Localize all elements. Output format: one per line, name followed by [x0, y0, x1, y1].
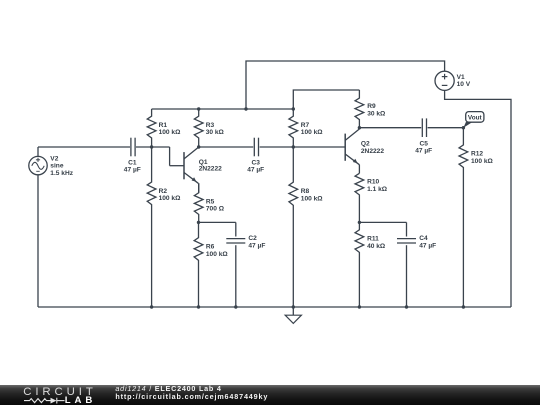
wire Q2 collector to C5: [359, 127, 421, 129]
svg-text:100 kΩ: 100 kΩ: [301, 129, 324, 136]
node R2/rail: [150, 305, 153, 308]
LAB logo text: [65, 395, 96, 405]
svg-text:100 kΩ: 100 kΩ: [471, 158, 494, 165]
svg-text:R3: R3: [206, 122, 215, 129]
node R10/R11/C4 junction: [358, 221, 361, 224]
wire C4 bottom lead: [406, 245, 408, 307]
resistor R3: [194, 109, 203, 147]
wire V1 negative return: [445, 91, 511, 307]
node Vout junction: [462, 126, 465, 129]
svg-text:R2: R2: [159, 188, 168, 195]
svg-text:100 kΩ: 100 kΩ: [206, 251, 229, 258]
node R3 top rail junction: [197, 107, 200, 110]
svg-text:R10: R10: [367, 179, 379, 186]
svg-text:R11: R11: [367, 236, 379, 243]
wire R5/R6 node to C2: [199, 221, 236, 223]
svg-text:30 kΩ: 30 kΩ: [367, 110, 386, 117]
svg-text:R12: R12: [471, 151, 483, 158]
node R7/R8/Q2-base junction: [292, 145, 295, 148]
wire ground rail: [38, 306, 511, 308]
node C1/R1/R2/base junction: [150, 145, 153, 148]
node C2/rail: [234, 305, 237, 308]
svg-text:V1: V1: [457, 74, 465, 81]
node stage2 rail junction: [292, 107, 295, 110]
voltage source V1: [435, 71, 454, 90]
wire C2 top lead: [235, 222, 237, 236]
svg-text:C5: C5: [419, 140, 428, 147]
capacitor C1: [130, 138, 132, 157]
wire to Q1 base: [170, 165, 184, 167]
svg-text:100 kΩ: 100 kΩ: [159, 129, 182, 136]
wire R10/R11 node to C4: [359, 221, 406, 223]
node Q1 collector junction: [197, 145, 200, 148]
wire stage2 rail: [293, 90, 359, 109]
wire C4 top lead: [406, 222, 408, 236]
logo wire-resistor-diode glyph: [0, 395, 70, 405]
svg-text:Vout: Vout: [468, 114, 483, 121]
svg-text:R9: R9: [367, 103, 376, 110]
svg-text:Q2: Q2: [361, 141, 370, 148]
node R12/rail: [462, 305, 465, 308]
svg-text:R5: R5: [206, 198, 215, 205]
resistor R8: [289, 147, 298, 307]
svg-text:47 µF: 47 µF: [419, 242, 436, 249]
transistor Q1: [183, 152, 185, 179]
svg-text:C2: C2: [248, 235, 257, 242]
wire V1 positive feed: [246, 61, 445, 109]
capacitor C3: [253, 138, 255, 157]
wire Q1 emitter lead: [198, 183, 200, 193]
svg-text:2N2222: 2N2222: [361, 148, 384, 155]
resistor R12: [459, 128, 468, 307]
svg-text:R8: R8: [301, 188, 310, 195]
resistor R1: [147, 109, 156, 147]
attribution line: [115, 384, 221, 393]
node gnd/rail: [292, 305, 295, 308]
svg-text:R6: R6: [206, 244, 215, 251]
transistor Q2: [344, 134, 346, 161]
svg-text:C3: C3: [251, 159, 260, 166]
resistor R9: [355, 90, 364, 128]
capacitor C4: [397, 238, 416, 240]
node C4/rail: [405, 305, 408, 308]
capacitor C5: [421, 118, 423, 137]
svg-text:R7: R7: [301, 122, 310, 129]
svg-text:sine: sine: [50, 163, 64, 170]
node R11/rail: [358, 305, 361, 308]
resistor R6: [194, 222, 203, 307]
svg-text:1.1 kΩ: 1.1 kΩ: [367, 186, 388, 193]
node Q2 collector junction: [358, 126, 361, 129]
wire Q1 collector to C3: [199, 146, 254, 148]
voltage source V2: [29, 156, 47, 174]
CircuitLab logo text: [23, 386, 97, 398]
wire V2 bottom lead: [37, 175, 39, 307]
node V1 feed junction: [244, 107, 247, 110]
svg-text:2N2222: 2N2222: [199, 166, 222, 173]
svg-text:47 µF: 47 µF: [247, 166, 264, 173]
url line: [115, 392, 268, 401]
svg-text:47 µF: 47 µF: [124, 166, 141, 173]
svg-text:V2: V2: [50, 156, 58, 163]
svg-text:C4: C4: [419, 235, 428, 242]
footer watermark bar: [0, 385, 540, 405]
wire V2 top lead: [37, 147, 39, 156]
svg-text:10 V: 10 V: [457, 81, 471, 88]
wire C2 bottom lead: [235, 245, 237, 307]
wire top rail stage1: [152, 108, 294, 110]
svg-text:47 µF: 47 µF: [415, 148, 432, 155]
Vout flag: [463, 122, 472, 128]
svg-text:C1: C1: [128, 159, 137, 166]
resistor R10: [355, 173, 364, 222]
svg-text:R1: R1: [159, 122, 168, 129]
svg-text:40 kΩ: 40 kΩ: [367, 243, 386, 250]
node R5/R6/C2 junction: [197, 221, 200, 224]
resistor R11: [355, 222, 364, 307]
wire to Q2 base: [293, 146, 345, 148]
wire V2 to C1: [38, 146, 130, 148]
resistor R7: [289, 109, 298, 147]
svg-text:100 kΩ: 100 kΩ: [159, 195, 182, 202]
wire C3 to R7/R8 node: [260, 146, 294, 148]
node R6/rail: [197, 305, 200, 308]
wire C1 to base jog: [136, 146, 170, 148]
wire jog down: [169, 147, 171, 166]
ground: [292, 307, 294, 315]
svg-text:30 kΩ: 30 kΩ: [206, 129, 225, 136]
svg-text:47 µF: 47 µF: [248, 242, 265, 249]
svg-text:700 Ω: 700 Ω: [206, 206, 225, 213]
resistor R2: [147, 147, 156, 307]
svg-text:1.5 kHz: 1.5 kHz: [50, 170, 73, 177]
wire C5 to Vout node: [428, 127, 464, 129]
wire Q2 emitter lead: [358, 165, 360, 174]
svg-text:100 kΩ: 100 kΩ: [301, 195, 324, 202]
capacitor C2: [226, 238, 245, 240]
resistor R5: [194, 183, 203, 222]
